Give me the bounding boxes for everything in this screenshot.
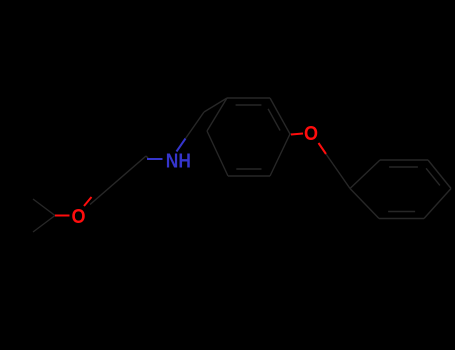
benzene ring1 edge TR-R [270,98,290,134]
benzene ring1 edge TL-TR top [227,97,270,99]
bond CH3a-CH (isopropyl arm up) [33,199,55,216]
ring1 double bond inner TL-TR top [236,104,262,106]
ring1 double bond inner BR-BL bottom [236,168,261,170]
svg-text:O: O [72,206,86,228]
benzene ring2 edge L-TL [350,160,380,189]
benzene ring1 edge BR-BL bottom [228,175,270,177]
svg-text:O: O [304,123,318,145]
ring2 double bond inner TR-R [426,168,440,185]
bond CH2-ring1 TL vertex [204,98,227,112]
benzene ring2 edge TR-R [428,160,451,189]
bond ring1-O gray bit [290,133,292,135]
benzene ring2 edge BR-BL bottom [379,218,424,220]
ring2 double bond inner TL-TR top [389,166,418,168]
ring2 double bond inner BR-BL bottom [388,211,415,213]
benzene ring2 edge BL-L [350,189,379,219]
bond N-CH2 gray part [186,112,205,139]
benzene ring1 edge BL-L [207,131,228,176]
bond CH3b-CH (isopropyl arm down) [33,216,55,233]
benzene ring1 edge R-BR [270,134,290,176]
benzene ring2 edge R-BR [424,189,451,219]
benzene ring1 edge L-TL [207,98,227,131]
bond O-chain to C3 straight [90,156,146,205]
bond C3 elbow [146,156,148,158]
svg-text:NH: NH [166,149,191,171]
ring1 double bond inner TR-R [268,109,280,131]
bond C3-N blue dash [147,158,163,160]
bond ring1-O red [291,134,303,135]
bond CH-O red [55,215,70,217]
bond N-CH2 blue tip [177,139,186,152]
bond O-CH2r-ring2 gray straight [326,154,350,189]
bond O-chain red tip [84,197,92,206]
bond O-CH2r red tip [319,143,327,154]
benzene ring2 edge TL-TR top [380,159,428,161]
